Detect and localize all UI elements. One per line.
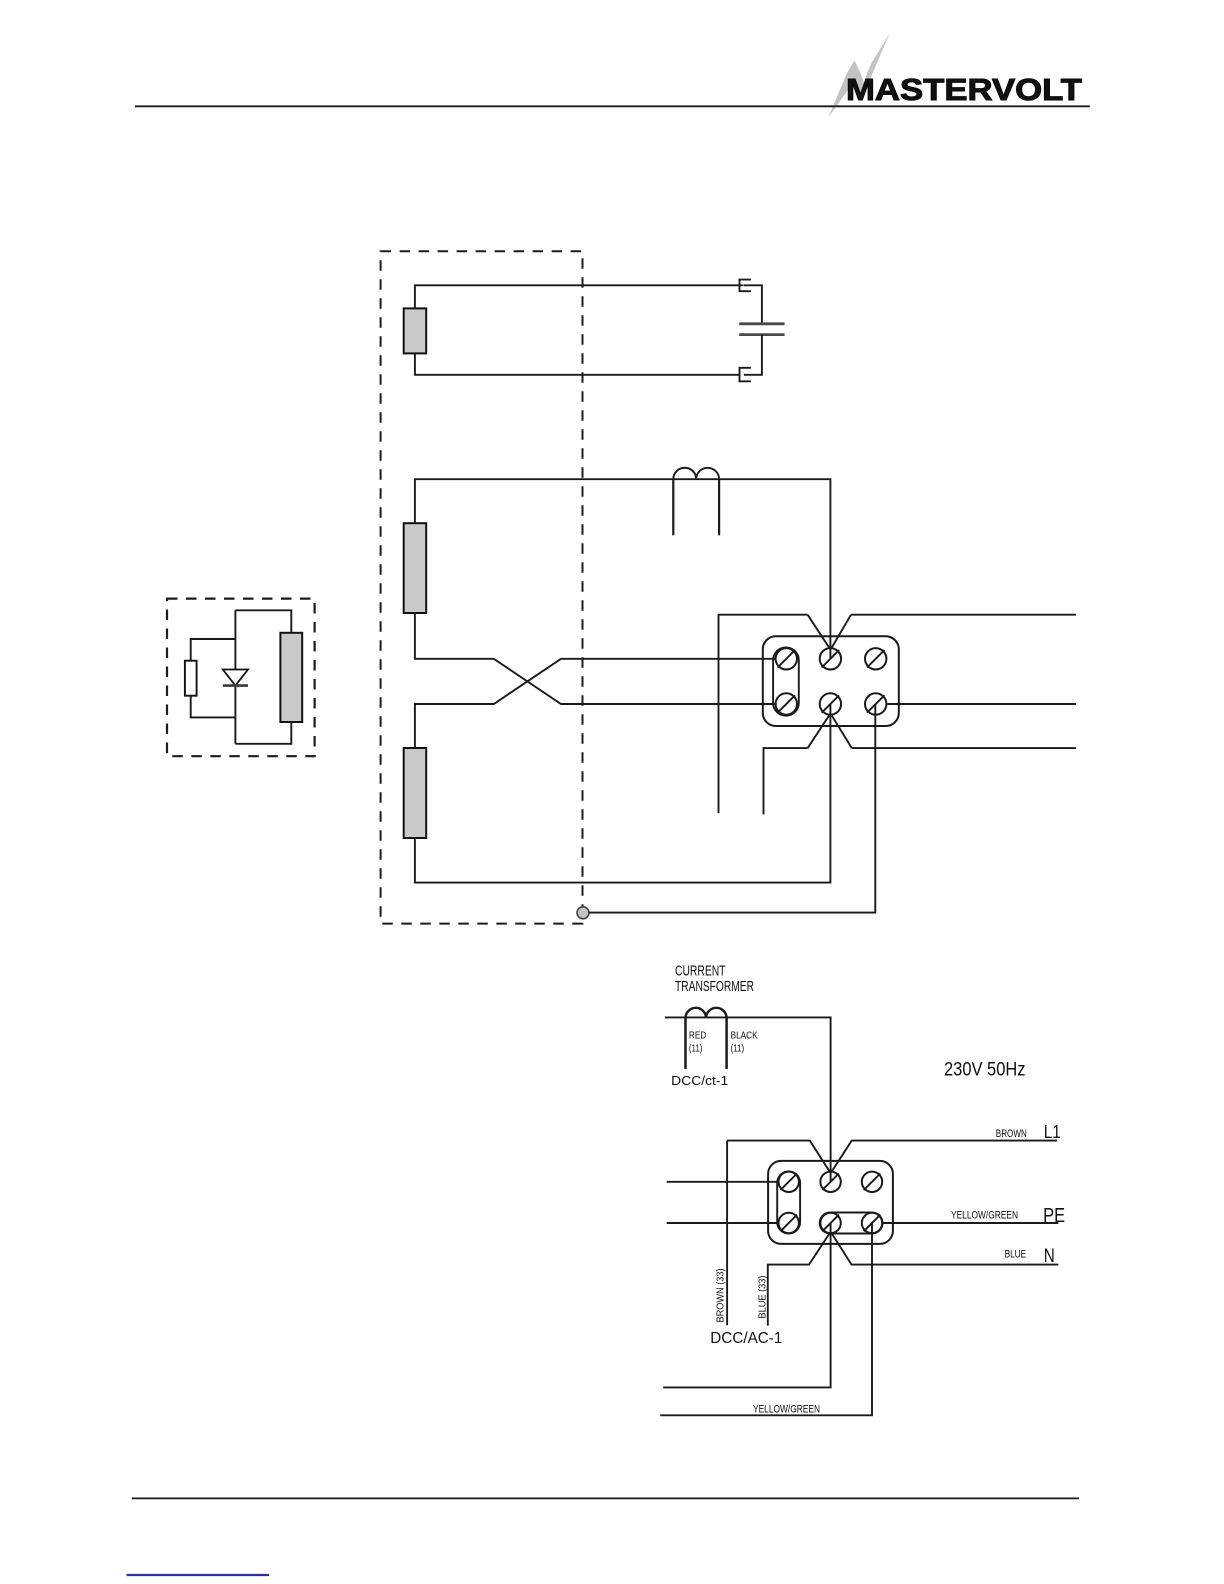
wire bracket to capacitor	[744, 285, 762, 324]
resistor R5	[185, 661, 197, 696]
arrow into X1-2 left	[808, 615, 829, 648]
terminal block X1	[763, 636, 899, 726]
resistor R3 (ballast)	[404, 748, 427, 838]
resistor R1 (top, starter circuit)	[404, 308, 427, 353]
svg-text:DCC/AC-1: DCC/AC-1	[710, 1330, 782, 1347]
wire upper-right out	[851, 614, 1076, 616]
connector bracket bottom	[740, 368, 751, 382]
wire diode branch	[234, 610, 236, 744]
link stadium X2 bottom row	[820, 1213, 883, 1234]
current transformer CT1	[673, 468, 719, 479]
wire N with arrow into X2-5	[768, 1234, 830, 1326]
wire R5 top	[191, 639, 236, 661]
svg-text:TRANSFORMER: TRANSFORMER	[675, 979, 754, 995]
dashed enclosure (lamp unit)	[381, 251, 583, 923]
screw X1-1	[776, 648, 797, 669]
capacitor C1 plates	[739, 322, 784, 325]
wire lower-right out	[852, 747, 1076, 749]
svg-text:BLUE (33): BLUE (33)	[757, 1276, 769, 1319]
screw X2-2	[820, 1172, 840, 1192]
footer rule	[132, 1497, 1079, 1499]
svg-text:YELLOW/GREEN: YELLOW/GREEN	[753, 1404, 820, 1416]
wire mains PE in	[667, 1222, 779, 1224]
wire PE right	[882, 1222, 1058, 1224]
screw X1-2	[820, 648, 841, 669]
header rule	[135, 105, 1090, 107]
wire sensor loop bottom	[235, 722, 291, 744]
wire BROWN (33) drop	[726, 1141, 728, 1326]
current transformer CT2	[665, 1017, 831, 1181]
resistor R4 (sensor)	[280, 633, 302, 722]
wire upper-left stub	[719, 615, 808, 813]
node (shield tap)	[577, 907, 589, 919]
wire node to X1-6	[589, 704, 875, 913]
arrow into X1-5 right	[832, 716, 852, 748]
wire bottom bracket to R1 bottom	[415, 353, 740, 374]
screw X1-5	[820, 693, 841, 714]
svg-text:YELLOW/GREEN: YELLOW/GREEN	[951, 1210, 1018, 1222]
screw X1-3	[865, 648, 886, 669]
footer blue rule	[127, 1574, 270, 1576]
dashed enclosure (sensor module)	[167, 599, 315, 757]
terminal block X2	[768, 1161, 893, 1244]
wire R5 bottom	[191, 696, 236, 718]
wire X2-5 down and left	[663, 1223, 830, 1387]
wire R3 bottom to X1 bottom-middle screw	[415, 704, 831, 883]
wire L1 brown right	[832, 1141, 1057, 1172]
wire L1 brown left	[727, 1141, 829, 1172]
screw X2-3	[862, 1172, 882, 1192]
svg-text:(11): (11)	[689, 1042, 703, 1054]
wire sensor loop top	[235, 610, 291, 633]
svg-text:RED: RED	[689, 1030, 707, 1042]
svg-text:MASTERVOLT: MASTERVOLT	[846, 72, 1082, 107]
svg-text:BROWN: BROWN	[996, 1128, 1027, 1140]
screw X2-6	[862, 1213, 882, 1233]
svg-text:(11): (11)	[731, 1042, 745, 1054]
link stadium X2 left column	[777, 1171, 800, 1233]
screw X2-4	[779, 1213, 799, 1233]
svg-text:L1: L1	[1044, 1121, 1061, 1142]
diode D1	[223, 670, 248, 686]
wire R2 top via CT to connector X1 middle	[415, 479, 831, 659]
wire lower-left stub	[764, 748, 808, 814]
screw X1-6	[865, 693, 886, 714]
link stadium X1 left column	[773, 647, 799, 715]
svg-text:N: N	[1044, 1245, 1055, 1267]
svg-text:BROWN (33): BROWN (33)	[715, 1269, 727, 1323]
arrow into X1-5 left	[808, 716, 829, 748]
svg-text:230V 50Hz: 230V 50Hz	[944, 1059, 1026, 1081]
wire X2-6 down to yellow/green	[660, 1223, 872, 1415]
wire X1-6 right out	[886, 703, 1076, 705]
svg-text:DCC/ct-1: DCC/ct-1	[671, 1073, 728, 1088]
wire R1 top to connector	[415, 285, 744, 308]
screw X2-5	[820, 1213, 840, 1233]
wire capacitor to bottom bracket	[744, 335, 762, 375]
wire crossover (R3 top to X1 upper-left screw)	[415, 659, 776, 748]
connector bracket top	[740, 280, 751, 292]
svg-text:BLUE: BLUE	[1005, 1249, 1027, 1261]
wire crossover (R2 bottom to X1 lower-left screw)	[415, 613, 776, 704]
wire mains L in	[667, 1181, 779, 1183]
screw X2-1	[779, 1172, 799, 1192]
resistor R2 (ballast)	[404, 523, 427, 613]
screw X1-4	[776, 693, 797, 714]
svg-text:CURRENT: CURRENT	[675, 964, 726, 980]
svg-text:BLACK: BLACK	[731, 1030, 758, 1042]
svg-text:PE: PE	[1043, 1205, 1065, 1227]
arrow into X1-2 right	[832, 615, 851, 648]
logo lightning bolt	[828, 33, 889, 117]
